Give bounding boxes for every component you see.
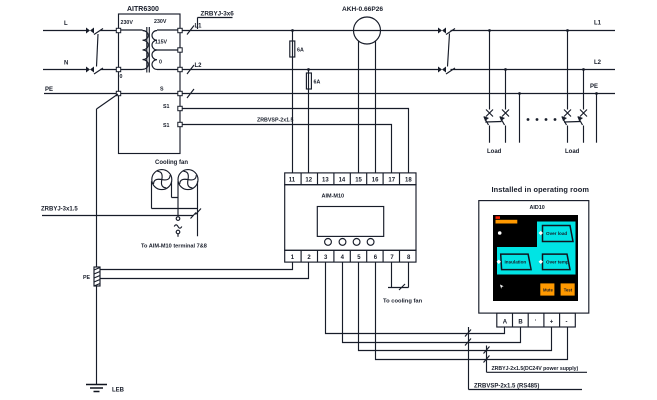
svg-text:Test: Test: [564, 288, 573, 293]
svg-text:L2: L2: [594, 60, 602, 66]
cable label ZRBYJ-3x6: [198, 11, 235, 30]
wire PE bus: [44, 93, 615, 95]
svg-text:ZRBVSP-2x1.5: ZRBVSP-2x1.5: [257, 118, 294, 124]
ground LEB: [86, 385, 125, 394]
wire AIM t5 to panel plus: [359, 262, 552, 350]
breaker load1 pole L1: [484, 110, 494, 126]
breaker QF1 linkage: [97, 34, 99, 67]
svg-text:Installed in operating room: Installed in operating room: [492, 185, 590, 194]
cable marks RS485: [465, 330, 471, 346]
svg-text:PE: PE: [590, 84, 598, 90]
svg-text:-: -: [566, 320, 568, 326]
svg-text:ZRBVSP-2x1.5 (RS485): ZRBVSP-2x1.5 (RS485): [474, 384, 539, 390]
wire L input: [43, 30, 119, 32]
svg-text:AKH-0.66P26: AKH-0.66P26: [342, 6, 383, 13]
panel AID10 enclosure: [479, 201, 589, 314]
arrow marks fan cable: [191, 209, 202, 219]
PE busbar: [83, 267, 100, 286]
svg-text:12: 12: [305, 178, 312, 184]
fan M2: [178, 170, 198, 190]
breaker QF2 pole L2: [438, 67, 455, 75]
svg-text:+: +: [550, 320, 554, 326]
svg-text:AITR6300: AITR6300: [127, 6, 159, 13]
svg-text:AIM-M10: AIM-M10: [322, 194, 345, 200]
svg-text:·: ·: [535, 318, 537, 324]
leader DC24V: [487, 346, 588, 373]
fan body wires: [152, 181, 198, 236]
fan M1: [152, 170, 172, 190]
svg-text:L1: L1: [594, 21, 602, 27]
CT secondary wires: [359, 41, 376, 173]
button Mute: [540, 283, 554, 295]
svg-text:N: N: [64, 61, 68, 67]
svg-text:L: L: [64, 21, 68, 27]
svg-text:11: 11: [289, 178, 296, 184]
svg-text:15: 15: [355, 178, 362, 184]
svg-text:13: 13: [322, 178, 329, 184]
transformer secondary winding upper: [152, 30, 180, 50]
screen cyan area: [497, 222, 576, 275]
wire N input: [43, 69, 119, 71]
button Over temp: [543, 254, 571, 270]
svg-text:PE: PE: [45, 87, 53, 93]
monitor U1 AIM-M10: [285, 185, 416, 251]
leader RS485: [469, 327, 583, 390]
svg-text:Mute: Mute: [543, 288, 553, 293]
breaker load1 linkage: [485, 121, 501, 124]
breaker QF2 pole L1: [438, 28, 455, 35]
svg-text:6A: 6A: [314, 80, 321, 86]
svg-text:S1: S1: [163, 123, 170, 129]
svg-text:230V: 230V: [121, 20, 134, 26]
transformer core: [147, 27, 150, 73]
wire S1 upper: [182, 109, 409, 173]
wire L1 bus: [182, 30, 615, 32]
transformer primary winding: [119, 30, 149, 70]
wire AIM t4 to panel B: [343, 262, 521, 342]
svg-text:B: B: [518, 320, 523, 326]
svg-text:Over temp: Over temp: [546, 260, 569, 265]
svg-text:Load: Load: [565, 149, 580, 155]
wire PE to AIM terminal 1: [100, 262, 293, 269]
svg-text:17: 17: [388, 178, 395, 184]
breaker load1 pole L2: [500, 110, 510, 126]
wire PE to AIM terminal 2: [100, 262, 309, 278]
svg-text:ZRBYJ-3x1.5: ZRBYJ-3x1.5: [41, 207, 78, 213]
load 2 branch wires: [566, 29, 598, 143]
transformer secondary winding lower: [152, 50, 180, 70]
current transformer CT AKH-0.66P26: [342, 6, 383, 44]
svg-text:16: 16: [372, 178, 379, 184]
svg-text:ZRBYJ-3x6: ZRBYJ-3x6: [201, 11, 235, 18]
breaker load2 pole L1: [562, 110, 572, 126]
transformer terminals: [116, 28, 182, 126]
svg-text:PE: PE: [83, 275, 91, 281]
wire AIM t6 to panel minus: [376, 262, 568, 359]
breaker QF1 pole N: [86, 67, 103, 75]
svg-text:AID10: AID10: [530, 205, 545, 211]
svg-text:230V: 230V: [154, 19, 167, 25]
svg-text:Insulation: Insulation: [505, 260, 527, 265]
AIM-M10 top terminal strip 11-18: [285, 173, 416, 185]
button Test: [561, 283, 575, 295]
svg-text:0: 0: [159, 60, 162, 66]
breaker QF2 linkage: [448, 34, 450, 67]
svg-text:Load: Load: [487, 149, 502, 155]
svg-text:A: A: [503, 320, 508, 326]
wire S1 lower: [182, 125, 392, 173]
svg-text:18: 18: [405, 178, 412, 184]
button Over load: [543, 226, 574, 242]
svg-text:S: S: [160, 87, 164, 93]
wire AIM t3 to panel A: [326, 262, 505, 333]
svg-text:To cooling fan: To cooling fan: [383, 299, 423, 305]
svg-text:14: 14: [339, 178, 346, 184]
svg-text:0: 0: [120, 74, 123, 80]
svg-text:S1: S1: [163, 104, 170, 110]
cable marks DC24V: [484, 347, 490, 363]
wire L2 bus: [182, 69, 615, 71]
breaker QF1 pole L: [86, 28, 103, 35]
wire AIM t7 t8 to cooling fan: [388, 262, 409, 287]
svg-text:L1: L1: [195, 24, 203, 30]
dots between loads: [527, 118, 557, 121]
wire busbar to ground: [96, 286, 98, 385]
load 1 branch wires: [488, 29, 521, 143]
breaker load2 linkage: [564, 121, 580, 124]
panel screen: [493, 215, 578, 301]
panel terminal strip A B + -: [497, 313, 576, 327]
svg-text:LEB: LEB: [112, 388, 125, 394]
fuse FU2 6A: [306, 68, 320, 173]
svg-text:6A: 6A: [297, 48, 304, 54]
PE drop diagonal: [97, 94, 119, 267]
wire fan cable: [42, 215, 194, 217]
svg-text:L2: L2: [195, 63, 203, 69]
fan plug connector: [174, 217, 182, 237]
transformer T1 AITR6300: [119, 6, 181, 154]
indicator markers: [497, 231, 543, 289]
fuse FU1 6A: [290, 29, 304, 173]
svg-text:To AIM-M10 terminal 7&8: To AIM-M10 terminal 7&8: [141, 244, 207, 250]
AIM-M10 bottom terminal strip 1-8: [285, 250, 416, 262]
svg-text:ZRBYJ-2x1.5(DC24V power supply: ZRBYJ-2x1.5(DC24V power supply): [492, 366, 579, 372]
button Insulation: [501, 254, 531, 270]
cable core marks ZRBYJ-3x6: [187, 26, 194, 99]
screen status bar: [496, 216, 518, 223]
arrow mark fan note: [399, 284, 405, 290]
breaker load2 pole L2: [578, 110, 588, 126]
svg-text:Over load: Over load: [546, 231, 567, 236]
svg-text:Cooling fan: Cooling fan: [155, 160, 188, 166]
